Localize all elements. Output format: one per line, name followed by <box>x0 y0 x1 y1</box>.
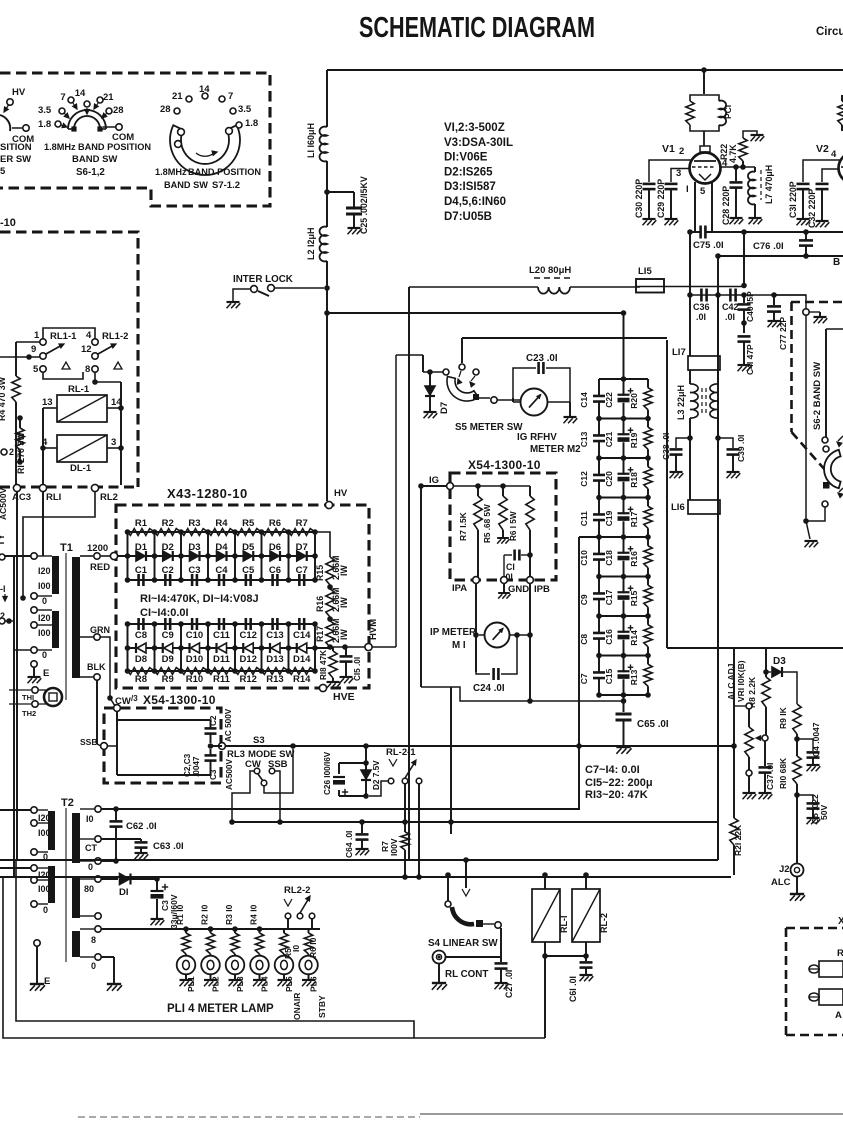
inner wires C2 C3 loop <box>116 711 118 720</box>
bank node <box>599 457 648 459</box>
diode D13 <box>271 643 280 653</box>
capacitor C5 <box>245 574 248 586</box>
svg-text:0: 0 <box>43 905 48 915</box>
wire matrix top right to R15 <box>315 532 330 557</box>
S6-2 arrows <box>838 436 843 441</box>
svg-text:R15: R15 <box>315 565 325 581</box>
capacitor C75 .01 <box>690 231 700 233</box>
svg-text:3: 3 <box>676 168 681 179</box>
S6 COM right <box>116 124 122 130</box>
svg-text:I20: I20 <box>38 566 51 576</box>
capacitor C61 .01 <box>585 956 587 961</box>
svg-text:S3: S3 <box>253 735 265 746</box>
svg-text:X54-1300-10: X54-1300-10 <box>468 458 541 472</box>
svg-text:5: 5 <box>0 166 6 177</box>
wire L16 down bus <box>717 514 719 860</box>
bus y860 <box>0 859 718 861</box>
svg-text:GND: GND <box>508 584 529 595</box>
wire RL2 down then left <box>23 492 95 598</box>
diode D3 <box>190 551 199 561</box>
capacitor C63 .01 <box>101 838 141 840</box>
svg-text:PCI: PCI <box>723 105 733 119</box>
svg-text:L20 80μH: L20 80μH <box>529 265 571 276</box>
svg-text:C36: C36 <box>693 302 710 312</box>
transformer L3 22uH <box>689 370 691 384</box>
svg-text:R2I 22K: R2I 22K <box>733 824 743 856</box>
ground lamp return <box>101 956 114 958</box>
frame outer bottom <box>3 877 545 1038</box>
node HVM wire <box>330 646 365 648</box>
svg-text:L7 470μH: L7 470μH <box>764 165 774 204</box>
capacitor C37 .01 <box>764 741 766 766</box>
T2 left taps <box>31 807 37 813</box>
diode D10 <box>191 643 200 653</box>
resistor R1 270 3W <box>19 418 21 428</box>
svg-text:LI5: LI5 <box>638 266 652 277</box>
resistor R5 .68 5W <box>502 486 504 496</box>
wire 0 tap to C62 <box>101 860 116 862</box>
svg-text:LI I60μH: LI I60μH <box>306 123 316 158</box>
resistor R15 <box>647 577 649 586</box>
svg-text:D7: D7 <box>296 542 308 553</box>
resistor R17 2.66M <box>326 621 334 647</box>
svg-text:4: 4 <box>86 330 92 341</box>
resistor R6 <box>262 529 289 536</box>
svg-text:R7: R7 <box>296 518 308 529</box>
IG internal bus <box>453 485 530 487</box>
svg-text:C39 .0I: C39 .0I <box>736 435 746 462</box>
svg-text:HV: HV <box>12 87 26 98</box>
svg-text:R11: R11 <box>213 674 231 685</box>
svg-text:J2: J2 <box>779 864 790 875</box>
svg-text:-I: -I <box>0 584 6 594</box>
dashed box band switch S6/S7 <box>0 73 270 206</box>
svg-text:IG RFHV: IG RFHV <box>517 432 557 443</box>
electrolytic C19 <box>623 498 625 515</box>
svg-text:CT: CT <box>85 843 97 853</box>
svg-text:I20: I20 <box>38 870 51 880</box>
svg-text:R: R <box>837 948 843 959</box>
svg-text:PLI 4 METER LAMP: PLI 4 METER LAMP <box>167 1003 274 1015</box>
left edge terminal 2 <box>1 449 7 455</box>
wire AC3 down <box>16 492 18 860</box>
svg-text:R2: R2 <box>162 518 174 529</box>
svg-text:R14: R14 <box>629 630 639 646</box>
capacitor C9 <box>164 618 167 630</box>
svg-text:E: E <box>44 976 50 987</box>
svg-text:12: 12 <box>81 344 92 355</box>
wire top resistor bus <box>128 531 316 533</box>
svg-text:.0I: .0I <box>696 312 706 322</box>
wire RL-2-1 middle contact down R7 <box>404 784 406 832</box>
capacitor C7 <box>598 656 600 673</box>
svg-text:SSB: SSB <box>80 737 97 747</box>
capacitor C77 22P <box>773 295 775 305</box>
svg-text:CI5 .0I: CI5 .0I <box>353 657 362 681</box>
capacitor C6 <box>271 574 274 586</box>
electrolytic C17 <box>623 577 625 594</box>
svg-text:80: 80 <box>84 884 94 894</box>
switch S5 METER SW <box>443 369 449 375</box>
svg-text:21: 21 <box>103 92 114 103</box>
svg-text:D7: D7 <box>439 402 450 414</box>
resistor R22 4.7K <box>742 161 744 167</box>
parasitic choke PC1 <box>690 95 719 101</box>
svg-text:RL CONT: RL CONT <box>445 969 488 980</box>
svg-text:C37 .0I: C37 .0I <box>765 763 775 790</box>
pilot lamp PL4 <box>259 954 261 956</box>
svg-text:INTER LOCK: INTER LOCK <box>233 274 293 285</box>
svg-text:RI3~20: 47K: RI3~20: 47K <box>585 789 648 801</box>
svg-text:SITION: SITION <box>0 142 32 153</box>
diode D6 <box>270 551 279 561</box>
diode D7 <box>396 354 423 356</box>
wire IG line lower <box>421 687 624 701</box>
bank HV rail stem <box>623 313 625 379</box>
dashed S6-2 band switch box <box>791 301 843 304</box>
bank node <box>599 497 648 499</box>
svg-text:R12: R12 <box>240 674 257 685</box>
capacitor C13 <box>598 419 600 436</box>
electrolytic C22 <box>623 379 625 396</box>
svg-text:D1: D1 <box>135 542 148 553</box>
svg-text:3.5: 3.5 <box>238 104 252 115</box>
bank node <box>599 536 648 538</box>
wire mid diode bus <box>114 555 315 557</box>
left vertical wire <box>13 556 15 877</box>
resistor R21 22K <box>733 648 735 818</box>
capacitor C2 <box>210 720 212 728</box>
capacitor C27 .01 <box>446 956 501 958</box>
svg-text:R5 .68 5W: R5 .68 5W <box>483 504 492 543</box>
svg-text:R1 I0: R1 I0 <box>175 904 185 925</box>
capacitor C26 100/16V <box>365 746 367 763</box>
capacitor C13 <box>271 618 274 630</box>
wire S3 SSB contact <box>275 771 280 822</box>
capacitor C65 .01 <box>623 695 625 712</box>
svg-text:D12: D12 <box>240 654 257 665</box>
svg-text:0: 0 <box>91 961 96 971</box>
diode D8 <box>137 643 146 653</box>
svg-text:D2 7.5V: D2 7.5V <box>372 760 381 790</box>
thermal switch TH1 TH2 <box>32 687 38 693</box>
svg-text:D13: D13 <box>266 654 283 665</box>
svg-text:2: 2 <box>679 146 684 157</box>
capacitor C28 220P <box>735 167 737 181</box>
capacitor C12 <box>598 458 600 475</box>
svg-text:RL-2: RL-2 <box>599 913 609 933</box>
svg-text:CI: CI <box>506 562 515 572</box>
svg-text:PL2: PL2 <box>211 976 221 992</box>
svg-text:HVE: HVE <box>333 691 355 703</box>
svg-text:D9: D9 <box>162 654 174 665</box>
svg-text:AC3: AC3 <box>12 492 31 503</box>
wire x719 long drop <box>717 295 719 860</box>
node R9/C4 <box>794 736 800 742</box>
svg-text:C40 I5P: C40 I5P <box>745 291 755 322</box>
wire RL1 down to T1 <box>42 492 44 556</box>
pilot lamp PL3 <box>234 954 236 956</box>
svg-text:C38 .0I: C38 .0I <box>661 433 671 460</box>
svg-text:.0I: .0I <box>725 312 735 322</box>
svg-text:1.8: 1.8 <box>245 118 258 129</box>
svg-text:R19: R19 <box>629 432 639 448</box>
svg-text:D2: D2 <box>162 542 174 553</box>
capacitor C14 <box>298 618 301 630</box>
svg-text:4: 4 <box>831 149 837 160</box>
T1 tap circles and labels <box>0 554 5 560</box>
terminal RL2 <box>91 484 98 491</box>
T1 1200 lead <box>80 555 93 557</box>
svg-text:RL2: RL2 <box>100 492 118 503</box>
meter M1 <box>485 623 510 648</box>
svg-text:1.8: 1.8 <box>38 119 51 130</box>
svg-text:C6: C6 <box>269 565 281 576</box>
capacitor C29 220P <box>671 169 689 183</box>
svg-text:X43-1280-10: X43-1280-10 <box>167 486 248 501</box>
svg-text:C65 .0I: C65 .0I <box>637 719 669 730</box>
svg-text:R3: R3 <box>188 518 200 529</box>
resistor R3 <box>181 529 208 536</box>
dashed box relay section <box>0 232 138 487</box>
capacitor C41 47P <box>743 323 745 333</box>
svg-text:R6: R6 <box>269 518 281 529</box>
svg-text:VRI I0K(B): VRI I0K(B) <box>736 660 746 702</box>
svg-text:R4 I0: R4 I0 <box>249 904 259 925</box>
svg-text:C23 .0I: C23 .0I <box>526 353 558 364</box>
svg-text:IG: IG <box>429 475 439 486</box>
bank node <box>599 576 648 578</box>
svg-text:21: 21 <box>172 91 183 102</box>
resistor R20 <box>647 379 649 388</box>
svg-text:D4: D4 <box>215 542 228 553</box>
wire pin5/8 lower <box>43 372 83 379</box>
svg-text:R7 I.5K: R7 I.5K <box>458 511 468 541</box>
electrolytic C20 <box>623 458 625 475</box>
svg-text:0: 0 <box>42 596 47 606</box>
terminal RL1 <box>39 484 46 491</box>
svg-text:C7: C7 <box>579 673 589 684</box>
capacitor C4 <box>218 574 221 586</box>
resistor R8 2.2K <box>765 648 767 677</box>
svg-text:C19: C19 <box>604 510 614 526</box>
svg-text:7: 7 <box>60 92 65 103</box>
svg-text:C64 .0I: C64 .0I <box>344 831 354 858</box>
electrolytic C15 <box>623 656 625 673</box>
capacitor C1 <box>137 574 140 586</box>
dashed bottom edge relay box <box>0 486 138 489</box>
svg-text:I00: I00 <box>38 884 51 894</box>
relay coil RL-1 bottom <box>544 875 546 889</box>
svg-text:T2: T2 <box>61 797 74 809</box>
svg-text:BAND SW: BAND SW <box>72 154 117 165</box>
resistor R1 <box>128 529 155 536</box>
svg-text:C9: C9 <box>162 630 174 641</box>
svg-text:3: 3 <box>111 437 116 448</box>
bank node <box>599 615 648 617</box>
svg-text:C11: C11 <box>213 630 231 641</box>
svg-text:V1: V1 <box>662 143 675 155</box>
terminal AC3 <box>13 484 20 491</box>
svg-text:S4 LINEAR SW: S4 LINEAR SW <box>428 938 498 949</box>
frame inner bottom <box>16 860 414 1038</box>
svg-text:S5 METER SW: S5 METER SW <box>455 422 523 433</box>
T2 right tap 0 <box>80 860 94 862</box>
svg-text:13: 13 <box>42 397 53 408</box>
svg-text:RI8 47K: RI8 47K <box>319 650 328 680</box>
svg-text:C4I 47P: C4I 47P <box>745 344 755 375</box>
resistor R1 10 <box>183 926 189 932</box>
V2 grid wire <box>803 160 841 182</box>
wire pin1 to left edge <box>16 341 40 343</box>
rotary switch S7-1.2 horseshoe <box>170 125 240 175</box>
svg-text:PL3: PL3 <box>235 976 245 992</box>
resistor R2 <box>155 529 182 536</box>
bank node <box>599 418 648 420</box>
resistor R2 10 <box>208 926 214 932</box>
svg-text:HVM: HVM <box>368 619 379 640</box>
diode D9 <box>164 643 173 653</box>
svg-text:R16: R16 <box>315 596 325 612</box>
resistor R6 1 5W <box>529 486 531 496</box>
svg-text:C12: C12 <box>579 471 589 487</box>
svg-text:R1: R1 <box>135 518 148 529</box>
capacitor C3 <box>210 749 212 755</box>
svg-text:C21: C21 <box>604 431 614 447</box>
svg-text:C62 .0I: C62 .0I <box>126 821 157 832</box>
wire SSB into box <box>107 745 117 747</box>
pilot lamp PL5 <box>283 954 285 956</box>
svg-text:RL1-2: RL1-2 <box>102 331 128 342</box>
capacitor C38 .01 <box>676 438 690 448</box>
svg-text:C63 .0I: C63 .0I <box>153 841 184 852</box>
svg-text:D8: D8 <box>135 654 147 665</box>
cap bank top wire <box>599 378 648 380</box>
terminal HVE <box>319 684 326 691</box>
svg-text:C18: C18 <box>604 550 614 566</box>
svg-text:AC500V: AC500V <box>0 488 8 520</box>
svg-text:DL-1: DL-1 <box>70 463 92 474</box>
rotary switch S6-1,2 <box>68 110 106 129</box>
svg-text:AC500V: AC500V <box>225 759 234 790</box>
tube V1 filament legs <box>694 182 696 232</box>
svg-text:C7: C7 <box>296 565 308 576</box>
svg-text:5: 5 <box>700 186 706 197</box>
T2 right tap 10 <box>80 808 94 810</box>
wire R7 to 1PA <box>477 530 479 578</box>
T2 right tap CT <box>80 838 94 840</box>
wire tap10 riser to divider <box>578 537 580 809</box>
capacitor C36 .01 <box>700 289 703 302</box>
svg-text:7: 7 <box>228 91 233 102</box>
rca plug 2 <box>809 993 819 1001</box>
svg-text:X: X <box>838 916 843 927</box>
vertical wire left R4 branch <box>15 342 17 376</box>
svg-text:BAND SW: BAND SW <box>164 180 208 190</box>
inductor L2 12uH <box>320 227 327 262</box>
T1 GRN tap <box>80 636 94 638</box>
svg-text:5: 5 <box>33 364 39 375</box>
capacitor C7 <box>298 574 301 586</box>
pilot lamp PL2 <box>210 954 212 956</box>
zener diode D2 7.5V <box>365 763 367 770</box>
svg-text:S6-1,2: S6-1,2 <box>76 167 105 178</box>
wire S3 pivot to RL3 node <box>264 749 293 793</box>
svg-text:R2 I0: R2 I0 <box>200 904 210 925</box>
svg-text:R3 I0: R3 I0 <box>224 904 234 925</box>
svg-text:D3: D3 <box>188 542 200 553</box>
connector on S6-2 column <box>803 309 809 315</box>
wire C78 branch <box>450 687 452 834</box>
svg-text:C7~I4: 0.0I: C7~I4: 0.0I <box>585 764 640 776</box>
relay coil RL-2 bottom <box>585 875 587 889</box>
T2 right tap 80 <box>80 878 94 880</box>
electrolytic C21 <box>623 419 625 436</box>
HV feed wire to cap bank <box>327 312 624 314</box>
wire meter top bus <box>462 337 667 339</box>
bank node <box>599 655 648 657</box>
electrolytic C18 <box>623 537 625 554</box>
svg-text:DI:V06E: DI:V06E <box>444 152 488 164</box>
svg-text:C5: C5 <box>242 565 255 576</box>
svg-text:4.7K: 4.7K <box>728 144 738 163</box>
resistor R13 <box>262 668 289 675</box>
diode D11 <box>218 643 227 653</box>
svg-text:C4: C4 <box>215 565 228 576</box>
resistor R11 <box>208 668 235 675</box>
svg-text:C6I .0I: C6I .0I <box>568 976 578 1002</box>
svg-text:C20: C20 <box>604 471 614 487</box>
capacitor C10 <box>598 537 600 554</box>
svg-text:C32 220P: C32 220P <box>807 189 817 228</box>
diode D2 <box>163 551 172 561</box>
resistor R3 10 <box>232 926 238 932</box>
svg-text:C2,C3: C2,C3 <box>183 753 192 777</box>
svg-text:D14: D14 <box>293 654 311 665</box>
svg-text:I0: I0 <box>291 945 301 952</box>
wire alc top rail <box>667 647 843 649</box>
wire down to PC1 <box>703 70 705 94</box>
svg-text:28: 28 <box>113 105 124 116</box>
svg-text:C77 22P: C77 22P <box>778 317 788 350</box>
svg-text:28: 28 <box>160 104 171 115</box>
lamp feed wire <box>101 928 320 930</box>
meter M2 <box>521 389 548 416</box>
svg-text:TH2: TH2 <box>22 709 36 718</box>
svg-text:THI: THI <box>22 693 34 702</box>
svg-text:I00V: I00V <box>389 838 399 856</box>
terminal GND <box>501 577 508 584</box>
svg-text:R8: R8 <box>135 674 147 685</box>
capacitor C14 <box>598 379 600 396</box>
resistor R13 <box>647 656 649 665</box>
terminal 1PA <box>473 577 480 584</box>
svg-text:C8: C8 <box>579 634 589 645</box>
T1 BLK tap <box>80 676 94 678</box>
svg-text:C11: C11 <box>579 511 589 526</box>
dashed box X54-1300-10 lower <box>104 708 221 783</box>
T2 right tap 0 low <box>80 956 94 958</box>
capacitor C25 .002/15KV <box>327 191 354 193</box>
capacitor C12 <box>245 618 248 630</box>
svg-text:R10: R10 <box>186 674 203 685</box>
jack RL CONT <box>433 951 446 964</box>
svg-text:RL1-1: RL1-1 <box>50 331 77 342</box>
wire RL-2-1 left contact to D2 <box>369 781 388 796</box>
svg-text:C3: C3 <box>209 769 218 780</box>
svg-text:CI5~22: 200μ: CI5~22: 200μ <box>585 777 653 789</box>
wire PC1 to V1 <box>703 131 705 146</box>
